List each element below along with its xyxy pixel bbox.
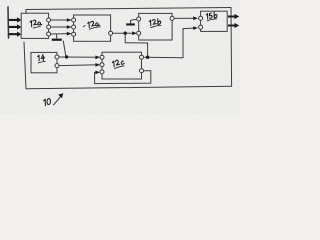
wire outer boundary bottom edge bbox=[26, 86, 232, 89]
wire 12a out to 12b in2 bbox=[113, 32, 136, 34]
label 10 leader arrow bbox=[54, 96, 62, 106]
label 12c bbox=[112, 59, 125, 69]
wire 12c feedback loop bbox=[95, 71, 151, 84]
wire outer boundary left edge upper stub bbox=[25, 10, 27, 14]
wire ground bar down to node bbox=[63, 41, 66, 56]
arrowhead into 12b in2 bbox=[132, 31, 137, 35]
wire outer boundary top edge bbox=[26, 8, 231, 10]
block 12c bbox=[102, 52, 142, 79]
arrowhead row3 bbox=[67, 32, 72, 36]
wire 11a to 12a row2 bbox=[51, 26, 71, 28]
terminal 14 out2 bbox=[55, 64, 59, 68]
block 12a bbox=[74, 15, 111, 41]
terminal 11a out2 bbox=[47, 25, 51, 29]
terminal 11a out3 bbox=[47, 32, 51, 36]
ground bar 2 bbox=[126, 23, 135, 25]
terminal 12c in1 bbox=[100, 55, 104, 59]
terminal 12c in2 bbox=[100, 63, 104, 67]
output arrow 1 bbox=[228, 14, 239, 19]
block 11a bbox=[21, 13, 48, 38]
node B junction dot bbox=[146, 56, 149, 59]
input arrow 2 bbox=[9, 24, 21, 29]
terminal 11a out1 bbox=[47, 18, 51, 22]
wire 12b in1 to ground bbox=[131, 19, 137, 23]
block 12b bbox=[139, 13, 172, 40]
wire 14 out1 to 12c in1 bbox=[59, 56, 98, 58]
terminal 12b in2 bbox=[137, 31, 141, 35]
ground tap stem on row3 bbox=[56, 34, 58, 38]
input arrow 1 bbox=[9, 17, 21, 22]
wire 11a to 12a row3 bbox=[51, 33, 71, 35]
label 15b bbox=[206, 12, 218, 21]
terminal 12b out bbox=[170, 16, 174, 20]
arrowhead row2 bbox=[67, 25, 72, 29]
label 12b bbox=[149, 18, 161, 27]
arrowhead into 12c in1 bbox=[95, 56, 100, 60]
wire outer boundary left edge lower segment bbox=[24, 42, 26, 89]
terminal 12c out2 bbox=[140, 69, 144, 73]
arrowhead into 15b in2 bbox=[193, 26, 198, 30]
wire 14 out2 to 12c in2 bbox=[59, 64, 98, 67]
output arrow 2 bbox=[228, 23, 239, 28]
block 15b bbox=[201, 11, 228, 31]
junction on 12a out wire bbox=[124, 32, 127, 35]
terminal 15b in2 bbox=[199, 25, 203, 29]
wire outer boundary right edge bbox=[230, 8, 233, 87]
arrowhead row1 bbox=[67, 18, 72, 22]
terminal 12a out bbox=[109, 31, 113, 35]
node A junction dot bbox=[65, 55, 68, 58]
terminal 12a in1 bbox=[72, 18, 76, 22]
input arrow 3 bbox=[9, 32, 21, 37]
label 11a bbox=[30, 19, 42, 28]
wire 11a to 12a row1 bbox=[51, 19, 71, 21]
arrowhead into 12c in3 bbox=[95, 71, 100, 75]
terminal 14 out1 bbox=[55, 55, 59, 59]
label 10 bbox=[43, 98, 51, 105]
arrowhead into 12c in2 bbox=[95, 63, 100, 67]
terminal 12b in1 bbox=[137, 17, 141, 21]
wire input bus vertical line bbox=[7, 7, 10, 38]
wire branch junction down and right to node B bbox=[125, 35, 147, 56]
label 12a bbox=[83, 20, 101, 30]
terminal 12c out1 bbox=[140, 55, 144, 59]
terminal 12a in3 bbox=[72, 32, 76, 36]
ground bar bbox=[52, 39, 62, 41]
terminal 12a in2 bbox=[72, 25, 76, 29]
wire 12c out1 to 15b in2 bbox=[144, 28, 197, 58]
label 14 bbox=[37, 54, 45, 63]
wire 12b out to 15b in1 bbox=[174, 17, 196, 19]
terminal 12c in3 bbox=[100, 70, 104, 74]
terminal 15b in1 bbox=[199, 16, 203, 20]
arrowhead into 15b in1 bbox=[193, 16, 198, 20]
block 14 bbox=[31, 52, 57, 72]
